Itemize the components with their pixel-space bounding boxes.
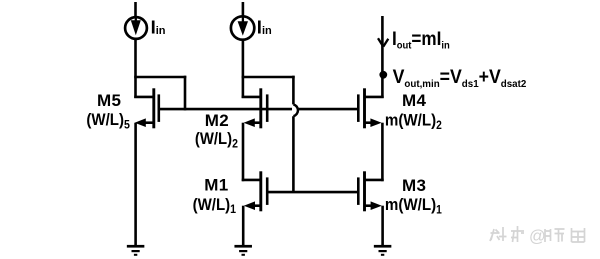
label m(W/L)2 bbox=[385, 111, 442, 132]
transistor M5 channel bar bbox=[152, 88, 155, 128]
node Vout,min junction dot bbox=[379, 71, 387, 79]
wire: common cascode gate line right of hop to M4 gate bbox=[299, 108, 359, 111]
wire: M1 drain jog (y=179.9) bbox=[242, 179, 261, 182]
wire: M1 source to ground vertical (x=243.2) bbox=[242, 206, 245, 246]
label Iin (middle) bbox=[257, 17, 272, 38]
svg-text:(W/L)5: (W/L)5 bbox=[86, 110, 129, 131]
watermark 知乎 @陈阳 bbox=[490, 226, 585, 246]
wire hop: crossing over gate line bbox=[293, 104, 298, 116]
wire: M3 source to ground vertical (x=382.6) bbox=[381, 206, 384, 246]
transistor M2 gate bar bbox=[266, 94, 269, 122]
label M2 bbox=[205, 111, 229, 130]
wire: M2 source with arrow bbox=[244, 118, 261, 127]
wire: M2 source to M1 drain vertical (x=243.0) bbox=[242, 123, 245, 182]
label M5 bbox=[97, 91, 121, 110]
wire: M5 diode loop vertical (x=185) bbox=[184, 76, 187, 111]
wire: M2 drain jog (y=96.9) bbox=[242, 96, 261, 99]
svg-text:M5: M5 bbox=[97, 91, 121, 110]
label (W/L)2 bbox=[195, 130, 238, 150]
label Vout,min=Vds1+Vdsat2 bbox=[393, 66, 527, 90]
svg-text:(W/L)1: (W/L)1 bbox=[193, 195, 236, 216]
wire: vertical continues below hop to gate line (x=293.4) bbox=[292, 116, 295, 192]
svg-text:M2: M2 bbox=[205, 111, 229, 130]
svg-text:@: @ bbox=[529, 228, 546, 246]
wire: M5 source to ground vertical (x=135.6) bbox=[134, 123, 137, 246]
wire: common cascode gate line M5-M2-M4 (y=109.1) left of hop bbox=[159, 108, 292, 111]
wire: mirror gate line M1-M3 (y=192.1) bbox=[267, 191, 358, 194]
output current direction arrow bbox=[378, 38, 388, 46]
ground (middle) bbox=[234, 245, 252, 256]
wire: output branch vertical top (x=382.4) bbox=[381, 16, 384, 98]
transistor M4 gate bar bbox=[357, 94, 360, 122]
transistor M1 channel bar bbox=[259, 171, 262, 211]
label M1 bbox=[204, 175, 228, 194]
wire: M1 source with arrow bbox=[244, 201, 261, 210]
label M4 bbox=[402, 91, 426, 110]
ground (left) bbox=[127, 245, 145, 256]
wire: M4 source with arrow bbox=[365, 118, 382, 127]
current source Iin (left) bbox=[125, 17, 147, 39]
transistor M1 gate bar bbox=[266, 177, 269, 205]
wire: M3 source with arrow bbox=[365, 201, 382, 210]
wire: M4 source to M3 drain vertical (x=382.4) bbox=[381, 123, 384, 182]
label (W/L)5 bbox=[86, 110, 129, 131]
ground (right) bbox=[374, 245, 392, 256]
wire: input node loop horizontal to M1/M3 gates (y=77) bbox=[242, 76, 295, 79]
wire: M5 diode loop horizontal (y=77) bbox=[134, 76, 186, 79]
transistor M5 gate bar bbox=[158, 94, 161, 122]
current source Iin (middle) bbox=[231, 16, 254, 39]
label Iin (left) bbox=[151, 17, 166, 38]
transistor M3 channel bar bbox=[363, 171, 366, 211]
transistor M2 channel bar bbox=[259, 88, 262, 128]
label M3 bbox=[402, 176, 426, 195]
label Iout=mIin bbox=[392, 28, 450, 52]
wire: vertical from input node down to mirror gate line (x=293.4), above hop bbox=[292, 76, 295, 105]
wire: M5 source with arrow bbox=[135, 118, 154, 127]
wire: middle input branch vertical (x=242.9) bbox=[242, 2, 245, 98]
transistor M3 gate bar bbox=[357, 177, 360, 205]
wire: M4 drain jog (y=96.9) bbox=[365, 96, 384, 99]
svg-text:M1: M1 bbox=[204, 175, 228, 194]
svg-text:(W/L)2: (W/L)2 bbox=[195, 130, 238, 150]
svg-text:m(W/L)1: m(W/L)1 bbox=[385, 195, 442, 216]
svg-text:M3: M3 bbox=[402, 176, 426, 195]
wire: M3 drain jog (y=179.9) bbox=[365, 179, 384, 182]
transistor M4 channel bar bbox=[363, 88, 366, 128]
wire: M5 drain jog (y=96.9) bbox=[134, 96, 154, 99]
label (W/L)1 bbox=[193, 195, 236, 216]
svg-text:M4: M4 bbox=[402, 91, 426, 110]
wire: left input branch vertical (x=135.5) bbox=[134, 2, 137, 98]
svg-text:m(W/L)2: m(W/L)2 bbox=[385, 111, 442, 132]
label m(W/L)1 bbox=[385, 195, 442, 216]
